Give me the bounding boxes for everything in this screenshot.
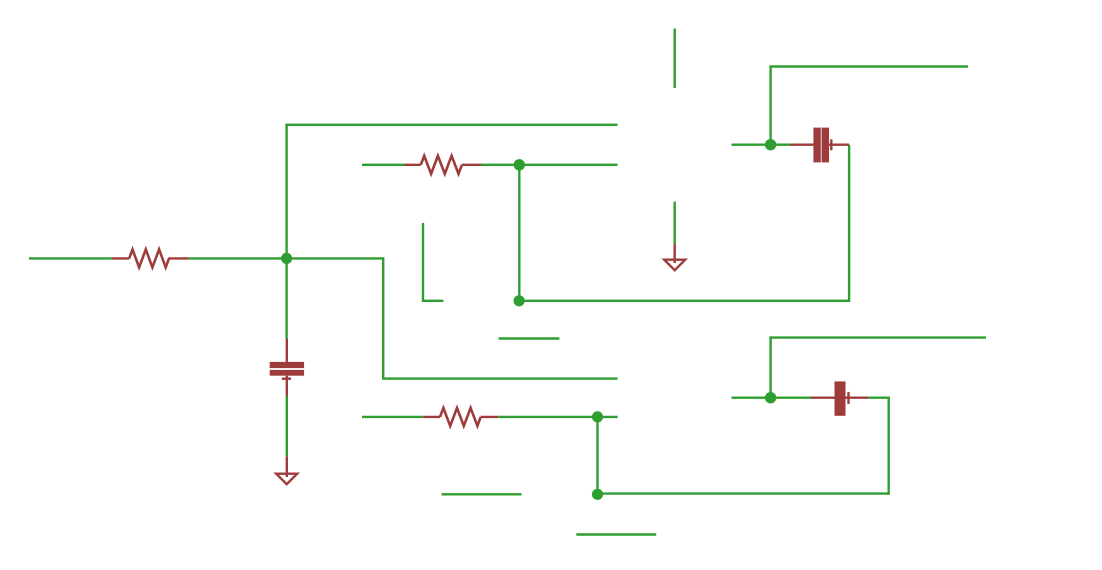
wire feedback A vertical bbox=[848, 145, 850, 302]
node T1 drain junction bbox=[592, 489, 603, 500]
wire VCC down to T2 bbox=[423, 223, 444, 301]
wire junction to C-low bbox=[771, 397, 812, 399]
wire feedback B vertical bbox=[888, 398, 890, 495]
wire junction to corner right bbox=[287, 257, 384, 259]
wire R5 node down to T2 drain bbox=[518, 165, 520, 301]
resistor R5 bbox=[404, 156, 481, 174]
wire R5 to IC4A pin2 bbox=[481, 164, 618, 166]
wire ENC_LEFT_OUT to R6 bbox=[362, 416, 423, 418]
resistor R2 bbox=[112, 249, 189, 267]
ground under IC4A bbox=[664, 244, 685, 271]
wire R6 node down to T1 drain bbox=[596, 417, 598, 494]
wire R6 to IC4B pin6 bbox=[498, 416, 617, 418]
wire C3 to GND bbox=[286, 395, 288, 456]
wire vertical down to REF-B bbox=[382, 257, 384, 378]
capacitor C6 (lower) bbox=[811, 381, 868, 415]
node R5/feedback junction bbox=[514, 159, 525, 170]
wire MOTOR_LEFT_CW horizontal bbox=[769, 336, 986, 338]
wire R2 to node REF junction bbox=[189, 257, 287, 259]
node T2 drain junction bbox=[514, 295, 525, 306]
wire junction up to REF-A bbox=[285, 124, 287, 259]
wire junction to C2 bbox=[771, 143, 791, 145]
wire LEFT_CW bbox=[576, 533, 656, 535]
wire LEFT_CC bbox=[499, 337, 560, 339]
wire REF-A to IC4A pin3 bbox=[285, 124, 617, 126]
resistor R6 bbox=[423, 408, 498, 426]
wire junction down to C3 bbox=[285, 258, 287, 338]
node IC4A output junction bbox=[765, 139, 776, 150]
wire REF_LEFT lead-in bbox=[29, 257, 112, 259]
node REF junction bbox=[281, 253, 292, 264]
wire MOTOR_LEFT_CW vertical bbox=[769, 338, 771, 398]
wire VCC-10V down to IC4A pin8 bbox=[674, 29, 676, 89]
wire MOTOR_LEFT_CC vertical bbox=[769, 67, 771, 145]
wire MOTOR_LEFT_CC horizontal bbox=[769, 65, 968, 67]
wire VCC to T1 bbox=[442, 493, 522, 495]
wire REF-B to IC4B pin5 bbox=[382, 377, 618, 379]
wire IC4A out to junction bbox=[732, 143, 767, 145]
ground under C3 bbox=[276, 456, 297, 484]
wire feedback A horizontal bbox=[523, 300, 849, 302]
capacitor C2 bbox=[790, 128, 849, 163]
wire ENC_LEFT_OUT to R5 bbox=[362, 164, 404, 166]
wire C-low to feedback B bbox=[868, 397, 890, 399]
wire IC4B out to junction bbox=[732, 397, 767, 399]
node IC4B output junction bbox=[765, 392, 776, 403]
node R6/feedback junction bbox=[592, 411, 603, 422]
capacitor C3 bbox=[270, 339, 304, 396]
wire IC4A pin4 to GND bbox=[674, 202, 676, 244]
wire feedback B horizontal bbox=[601, 492, 889, 494]
